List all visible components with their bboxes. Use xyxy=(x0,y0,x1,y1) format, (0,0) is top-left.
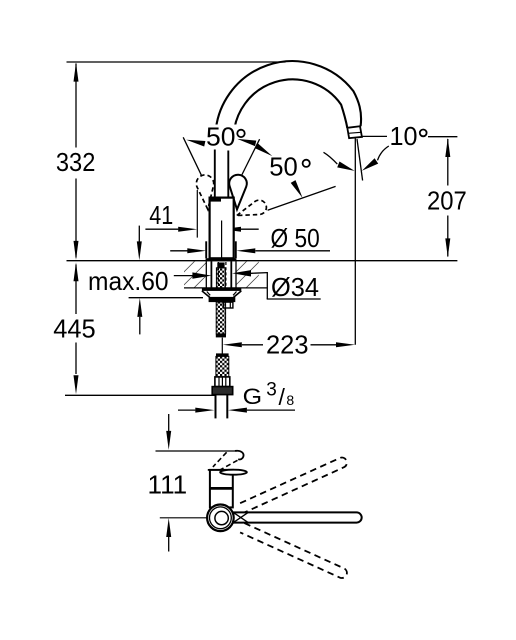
max60 depth reference line xyxy=(129,297,203,299)
cone hatch tick left xyxy=(207,292,210,296)
base plate dark band xyxy=(206,258,237,261)
shank inner dashed right xyxy=(225,262,227,288)
aerator mid line xyxy=(348,132,361,133)
G38 right arrow xyxy=(228,408,247,413)
max60 down arrow xyxy=(137,241,142,260)
degree circle of first 50 xyxy=(237,130,244,137)
svg-text:Ø34: Ø34 xyxy=(271,272,319,302)
countertop hatched section right xyxy=(236,261,259,288)
dim 41 extension line xyxy=(196,190,198,238)
lifted lever dashed lower edge xyxy=(215,460,238,473)
dia50 left arrow xyxy=(187,248,206,253)
base skirt right line xyxy=(235,241,237,258)
dim 223 line left xyxy=(242,344,263,346)
svg-text:41: 41 xyxy=(149,200,173,230)
dia34 leader to box xyxy=(251,272,267,275)
max60 upper arrow stem xyxy=(138,226,140,242)
braided hose section (checker) xyxy=(216,356,229,377)
shank black cap xyxy=(217,263,224,268)
shank inner dashed left xyxy=(217,262,219,288)
handle knob right position (solid) xyxy=(229,175,247,210)
shank tube right line xyxy=(230,261,232,288)
dia50 left arrow line xyxy=(170,250,187,252)
spout inner curve xyxy=(234,79,348,148)
spout aerator outlet xyxy=(347,126,362,138)
mounting nut black band xyxy=(209,297,236,302)
mounting cone left side xyxy=(202,291,210,298)
svg-text:G: G xyxy=(243,384,263,409)
dim 332 top arrow xyxy=(74,63,79,82)
max60 lower arrow stem xyxy=(139,317,141,335)
hose end nut xyxy=(212,387,233,395)
braided hose top dark band xyxy=(216,353,229,356)
base skirt left line xyxy=(205,241,207,258)
G38 right arrow line under label xyxy=(247,409,295,411)
lifted lever tip hook (solid) xyxy=(235,451,244,460)
svg-text:max.60: max.60 xyxy=(88,266,169,296)
svg-text:223: 223 xyxy=(266,329,309,359)
dim 111 bottom arrow xyxy=(166,518,171,537)
hose thin line (break) xyxy=(221,338,223,355)
stub inner line xyxy=(229,302,231,308)
center tick line bottom view xyxy=(160,517,207,519)
svg-text:50: 50 xyxy=(269,151,298,181)
dim 207 top arrow xyxy=(445,138,450,157)
50deg-1 right extension line xyxy=(241,139,259,176)
countertop surface line xyxy=(67,260,458,262)
svg-text:Ø 50: Ø 50 xyxy=(271,223,320,253)
50deg-1 left extension line xyxy=(183,137,202,176)
swivel base outer circle xyxy=(207,505,234,532)
svg-text:445: 445 xyxy=(53,313,95,343)
counter hole right edge xyxy=(235,261,237,288)
connection tube right line xyxy=(226,395,228,419)
dia34 box left edge xyxy=(266,272,268,299)
dim 111 top stem xyxy=(168,414,170,431)
lever paddle ellipse xyxy=(220,470,247,475)
svg-text:3: 3 xyxy=(266,380,277,401)
svg-text:207: 207 xyxy=(427,186,467,216)
column divider band xyxy=(210,487,233,490)
10deg tilted stream line xyxy=(357,139,363,181)
50deg-1 left arrow xyxy=(186,140,205,147)
dim 41 right line xyxy=(241,228,259,230)
G38 left arrow line xyxy=(178,409,195,411)
10deg right arc tail xyxy=(378,146,389,160)
rod bottom dark cap xyxy=(216,334,226,338)
handle knob left position (dashed) xyxy=(196,175,213,209)
svg-text:50: 50 xyxy=(206,121,236,151)
dim 41 right arrow xyxy=(222,227,241,232)
mounting washer bar xyxy=(202,288,241,291)
top reference line (spout top) xyxy=(67,61,286,63)
faucet body xyxy=(210,198,234,259)
dim 111 bottom stem xyxy=(168,537,170,552)
dim 445 top arrow xyxy=(74,262,79,281)
50deg-1 right arrow xyxy=(237,139,256,146)
body top line bottom view xyxy=(208,469,222,471)
dashed swivel arm upper xyxy=(240,458,347,513)
dim 223 left arrow xyxy=(223,342,242,347)
dim 207 top tick line xyxy=(428,136,457,138)
dimension 445 vertical line xyxy=(75,265,77,315)
collar rib 3 xyxy=(225,377,227,387)
collar rib 2 xyxy=(221,377,223,387)
body center axis line xyxy=(221,221,223,259)
riser/handle shaft right line xyxy=(227,151,229,198)
dim 207 bottom arrow xyxy=(445,238,450,257)
dim 332 bottom arrow xyxy=(74,241,79,260)
bottom reference line (hose end) xyxy=(65,394,215,396)
dia34 box bottom edge xyxy=(267,298,321,300)
leader from outlet to 10deg label xyxy=(363,135,388,137)
max60 up arrow xyxy=(137,298,142,317)
svg-text:/: / xyxy=(279,384,286,410)
50deg-2 right arrow xyxy=(291,180,303,198)
shank tube left line xyxy=(210,261,212,288)
degree circle of 10 xyxy=(420,130,427,137)
dim 41 left line xyxy=(145,228,178,230)
solid spout arm top view xyxy=(233,512,361,522)
countertop hatched section left xyxy=(184,261,206,288)
countertop bottom line xyxy=(184,287,267,289)
dia34 left arrow xyxy=(192,272,211,278)
dashed swivel arm lower xyxy=(240,523,347,578)
G38 left arrow xyxy=(195,408,214,413)
dim 223 right arrow xyxy=(336,342,355,347)
svg-text:111: 111 xyxy=(148,470,188,500)
threaded rod below nut (checker) xyxy=(216,302,225,334)
10deg left arc arrow xyxy=(337,162,354,171)
hose collar with ribs xyxy=(215,377,230,387)
dim 111 top arrow xyxy=(166,431,171,450)
joint X mark line 2 xyxy=(234,513,249,523)
outlet vertical axis line xyxy=(354,139,356,345)
degree circle of second 50 xyxy=(303,160,310,167)
svg-text:332: 332 xyxy=(56,147,96,177)
lifted lever dashed upper edge xyxy=(213,452,227,467)
cone hatch tick right xyxy=(233,292,236,296)
dia34 left arrow line xyxy=(174,275,193,277)
body column bottom view xyxy=(210,470,233,508)
handle knob far-right position (dashed) xyxy=(237,200,267,215)
50deg-2 left arrow xyxy=(255,143,272,156)
svg-text:8: 8 xyxy=(286,392,294,408)
body top-left black bar xyxy=(210,197,221,201)
10deg left arc tail xyxy=(324,152,338,164)
hose connection stub xyxy=(223,302,233,308)
top extension line of bottom view xyxy=(156,450,238,452)
spout outer curve xyxy=(215,61,361,149)
collar rib 1 xyxy=(218,377,220,387)
50deg-2 extension line from handle xyxy=(268,186,336,210)
swivel base ring xyxy=(210,507,232,529)
dim 223 line right xyxy=(311,344,337,346)
white backing for 50deg-1 label xyxy=(201,125,249,150)
threaded rod in counter (checker) xyxy=(216,268,225,288)
10deg right arc arrow xyxy=(362,158,378,170)
dia34 right arrow xyxy=(232,270,251,276)
dia50 right arrow xyxy=(236,248,255,253)
svg-text:10: 10 xyxy=(390,121,418,151)
dimension 207 vertical line xyxy=(447,139,449,186)
dia50 dim line under label xyxy=(255,250,330,252)
riser/handle shaft left line xyxy=(214,150,216,198)
joint X mark line 1 xyxy=(234,513,249,523)
mounting cone right side xyxy=(234,291,242,298)
dim 445 bottom arrow xyxy=(74,375,79,394)
swivel inner circle xyxy=(215,511,228,524)
connection tube left line xyxy=(215,395,217,419)
dim 41 left arrow xyxy=(178,227,197,232)
dimension 332 vertical line xyxy=(75,64,77,148)
counter hole left edge xyxy=(205,261,207,288)
